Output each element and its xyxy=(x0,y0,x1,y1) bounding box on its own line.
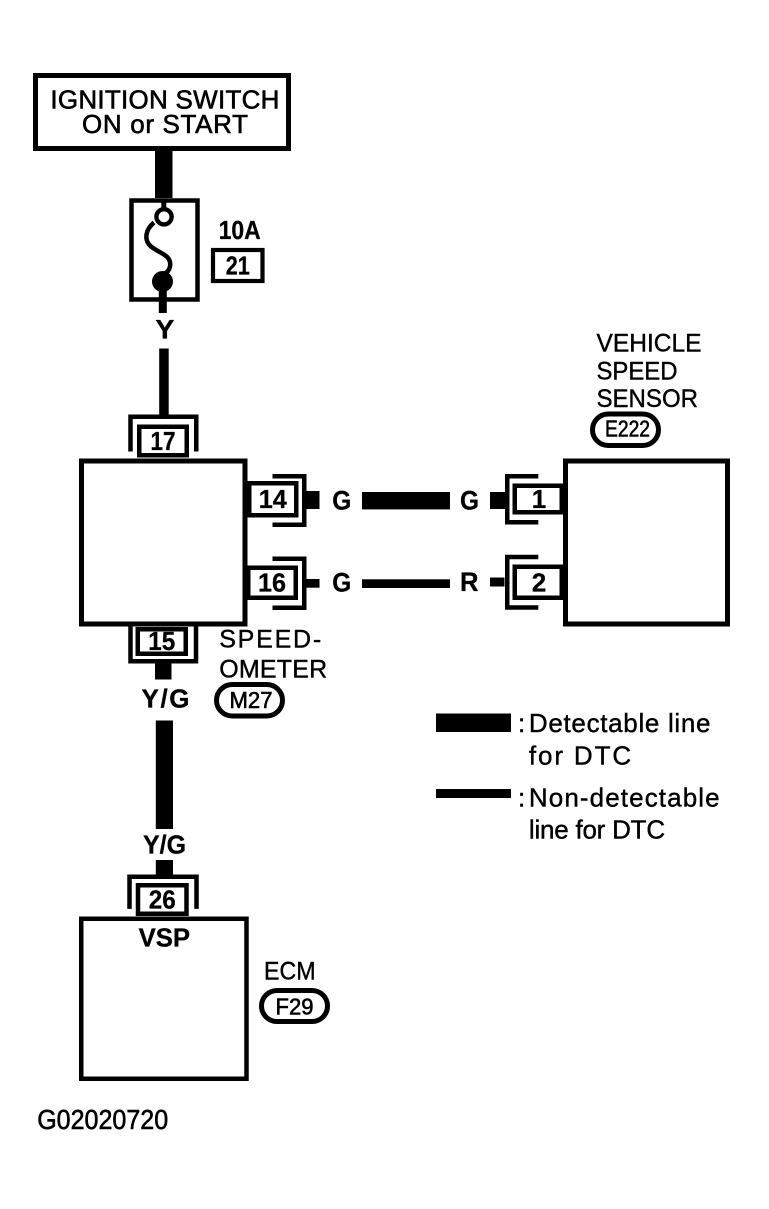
svg-text:G: G xyxy=(332,568,351,598)
svg-text:14: 14 xyxy=(259,484,288,514)
ECM box F29 xyxy=(81,919,246,1079)
svg-text:Y: Y xyxy=(155,315,174,345)
legend detectable text xyxy=(518,708,711,771)
svg-text:M27: M27 xyxy=(230,687,273,713)
svg-text::: : xyxy=(518,783,525,813)
legend non-detectable text xyxy=(518,783,720,845)
svg-text:Detectable line: Detectable line xyxy=(529,708,711,738)
svg-text:E222: E222 xyxy=(605,416,650,442)
connector 26 xyxy=(130,877,197,915)
wire G/R non-detectable (thin) xyxy=(362,579,450,588)
vehicle speed sensor label xyxy=(597,330,702,414)
pin 1 sensor xyxy=(490,476,562,522)
svg-text:10A: 10A xyxy=(219,215,261,245)
svg-text:26: 26 xyxy=(149,885,176,915)
svg-text:SPEED: SPEED xyxy=(597,358,678,386)
fuse F 10A xyxy=(132,199,198,313)
svg-text:21: 21 xyxy=(226,251,250,281)
svg-text:R: R xyxy=(460,567,479,597)
legend non-detectable line sample (thin) xyxy=(436,789,511,798)
svg-text:G: G xyxy=(460,486,479,516)
vehicle speed sensor box E222 xyxy=(566,461,728,624)
svg-text::: : xyxy=(518,708,525,738)
wire G detectable (thick) xyxy=(362,492,450,509)
speedometer box M27 xyxy=(82,461,246,624)
fuse number box 21 xyxy=(213,250,263,281)
svg-text:Y/G: Y/G xyxy=(142,684,190,714)
svg-text:16: 16 xyxy=(258,568,286,598)
wire ignition to fuse (thick) xyxy=(155,150,173,198)
svg-text:for DTC: for DTC xyxy=(529,741,631,771)
connector 17 xyxy=(131,417,197,456)
speedometer label xyxy=(219,626,327,684)
svg-text:G: G xyxy=(332,486,351,516)
svg-text:Non-detectable: Non-detectable xyxy=(529,783,720,813)
wire Y/G speedometer to ECM (thick) xyxy=(156,721,173,830)
pin 14 xyxy=(249,476,319,525)
svg-text:2: 2 xyxy=(532,568,546,598)
svg-text:15: 15 xyxy=(148,626,175,656)
svg-text:Y/G: Y/G xyxy=(143,830,186,860)
svg-text:1: 1 xyxy=(532,484,546,514)
pin 16 xyxy=(248,559,319,608)
svg-text:F29: F29 xyxy=(276,993,314,1019)
svg-text:SENSOR: SENSOR xyxy=(597,385,699,413)
pin 2 sensor xyxy=(490,557,562,608)
svg-text:OMETER: OMETER xyxy=(219,656,327,684)
ignition switch supply box xyxy=(36,76,289,149)
pin 15 xyxy=(131,626,197,680)
connector ref F29 xyxy=(262,991,328,1022)
svg-text:G02020720: G02020720 xyxy=(37,1104,168,1135)
svg-text:SPEED-: SPEED- xyxy=(219,626,321,654)
svg-text:ON or START: ON or START xyxy=(82,109,248,139)
legend detectable line sample (thick) xyxy=(436,714,511,733)
svg-text:ECM: ECM xyxy=(264,958,316,986)
wire Y fuse to speedometer xyxy=(159,349,169,418)
svg-text:line for DTC: line for DTC xyxy=(529,815,665,845)
svg-text:VSP: VSP xyxy=(139,923,191,953)
connector ref E222 xyxy=(593,414,659,446)
svg-text:VEHICLE: VEHICLE xyxy=(597,330,702,358)
svg-text:17: 17 xyxy=(151,426,176,456)
wire stub above connector 26 xyxy=(156,860,173,875)
connector ref M27 xyxy=(217,685,283,717)
